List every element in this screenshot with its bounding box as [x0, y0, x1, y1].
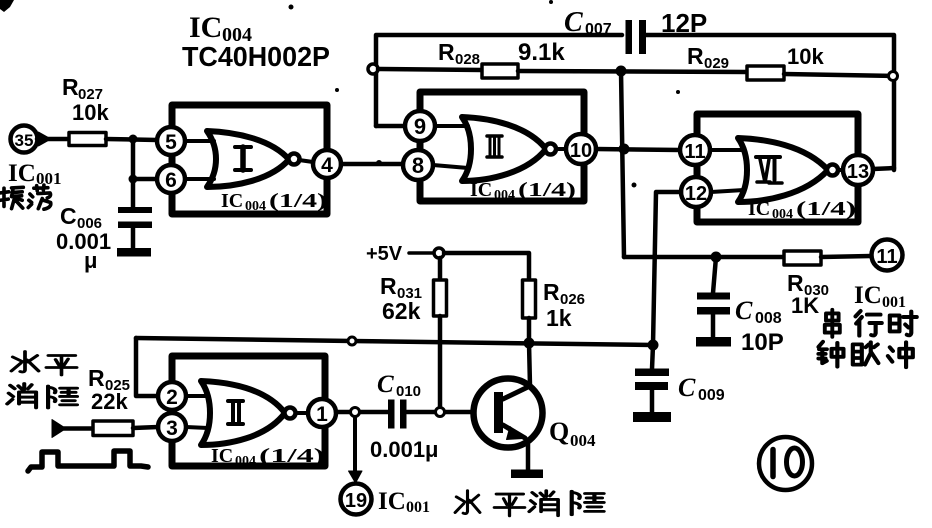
wire pin9 to gate — [435, 124, 468, 128]
svg-text:C: C — [735, 296, 753, 325]
wire bubble to pin4 — [299, 160, 313, 162]
pin 11 — [680, 135, 710, 165]
svg-text:62k: 62k — [382, 298, 421, 324]
svg-text:R: R — [438, 39, 455, 65]
svg-text:(1/4): (1/4) — [518, 179, 576, 201]
pin 9 — [405, 111, 435, 141]
wire pin12 to left vertical down — [653, 192, 681, 345]
wire pin12 to gate — [711, 190, 744, 192]
wire pin3 to gate — [186, 427, 208, 428]
gate U1-I box — [172, 105, 327, 214]
svg-text:μ: μ — [84, 248, 97, 273]
feedback wire top-left vertical — [376, 35, 622, 126]
wire corner to pin 9 — [376, 124, 405, 129]
ground bar below emitter — [511, 470, 543, 479]
capacitor C008 — [697, 257, 784, 356]
gate I part label IC004(1/4) — [221, 190, 327, 214]
NOR gate VI body — [738, 138, 838, 202]
label 消隐 — [7, 384, 77, 408]
svg-text:007: 007 — [585, 21, 612, 38]
wire C010 to base — [407, 410, 473, 415]
wire pin13 to right vertical — [873, 168, 894, 169]
terminal 11 (IC001 serial clock) — [872, 240, 903, 271]
svg-text:8: 8 — [412, 153, 424, 178]
node junction vertical/pin10 wire — [619, 144, 630, 155]
wire pin8 to gate — [433, 165, 468, 168]
svg-text:IC: IC — [378, 488, 406, 515]
node junction R028/R029/vertical — [616, 66, 627, 77]
capacitor C009 — [635, 345, 725, 413]
wire pin6 to gate — [185, 177, 214, 181]
gate II part label IC004(1/4) — [211, 445, 325, 469]
node junction pin6 — [129, 175, 138, 184]
label IC001 (oscillator) — [8, 160, 62, 188]
resistor R028 — [438, 39, 565, 78]
NOR gate III body — [462, 117, 556, 181]
wire 35 to R027 — [37, 137, 69, 142]
svg-text:1K: 1K — [791, 293, 819, 318]
node junction collector/R026 — [524, 338, 535, 349]
label 钟脉冲 — [818, 342, 912, 368]
capacitor C010 — [370, 371, 439, 462]
capacitor C006 — [56, 203, 152, 273]
svg-text:(1/4): (1/4) — [259, 445, 325, 467]
svg-text:004: 004 — [245, 199, 266, 214]
svg-text:R: R — [62, 74, 79, 100]
+5V supply — [366, 243, 444, 265]
gate VI numeral — [756, 157, 782, 183]
svg-text:9.1k: 9.1k — [518, 39, 565, 66]
svg-text:19: 19 — [345, 490, 367, 512]
gate U1-VI box — [697, 114, 858, 222]
top wire C007 to right corner — [646, 35, 894, 170]
wire junction to pin 6 — [133, 177, 157, 182]
label IC001 serial clock — [854, 282, 906, 311]
svg-text:10k: 10k — [72, 100, 109, 125]
svg-text:10P: 10P — [741, 329, 784, 356]
pin 13 (output) — [843, 155, 873, 185]
pin 10 (output) — [566, 134, 596, 164]
wire R025 to pin3 — [133, 427, 158, 428]
wire pin4 to pin8 — [341, 162, 403, 167]
svg-text:004: 004 — [772, 207, 793, 222]
svg-text:1k: 1k — [546, 305, 572, 331]
wire junction down to pin6 level and C006 — [131, 139, 136, 208]
wire bubble to pin13 — [838, 168, 843, 172]
node junction C009 top — [648, 340, 659, 351]
pin 19 drop arrow — [353, 417, 357, 471]
svg-text:R: R — [543, 279, 560, 305]
feedback vertical down to pin 2 — [136, 338, 158, 396]
wire pin5 to gate — [185, 139, 214, 143]
resistor R027 — [62, 74, 109, 146]
terminal 19 (IC001 horizontal blanking) — [341, 484, 372, 515]
pin 8 — [403, 150, 433, 180]
pin 6 — [157, 165, 185, 193]
svg-text:001: 001 — [882, 294, 906, 311]
node junction C008 top — [711, 252, 722, 263]
wire R029 to right vertical — [784, 74, 894, 76]
gate II numeral — [228, 401, 243, 424]
wire pin10 to pin11 — [596, 149, 680, 150]
wire bubble to pin1 — [296, 411, 308, 415]
resistor R026 — [523, 279, 586, 343]
svg-text:029: 029 — [704, 55, 729, 72]
svg-text:C: C — [377, 371, 394, 398]
ground bar below C009 — [633, 412, 671, 422]
svg-text:35: 35 — [15, 131, 34, 150]
svg-text:22k: 22k — [91, 389, 128, 414]
svg-text:001: 001 — [406, 499, 430, 516]
svg-text:5: 5 — [165, 131, 177, 154]
node ring right — [889, 72, 898, 81]
terminal 35 (IC001 pin 35) — [11, 126, 52, 153]
pin 2 — [158, 382, 186, 410]
svg-text:10k: 10k — [787, 44, 824, 69]
resistor R031 — [380, 258, 447, 412]
specks — [0, 0, 680, 188]
ink blob on wire — [376, 160, 382, 166]
svg-text:11: 11 — [876, 246, 897, 268]
wire pin2 to gate — [186, 394, 208, 398]
pin 5 — [157, 127, 185, 155]
gate III numeral — [487, 136, 502, 157]
svg-text:10: 10 — [570, 140, 592, 162]
transistor Q004 — [474, 379, 597, 471]
label R025 22k — [88, 365, 130, 414]
svg-text:IC: IC — [211, 445, 233, 467]
wire R028 to junction to R029 — [518, 71, 747, 72]
svg-text:3: 3 — [166, 417, 178, 440]
pin 3 — [158, 413, 186, 441]
svg-text:IC: IC — [8, 160, 36, 187]
gate VI part label IC004(1/4) — [748, 198, 856, 222]
svg-text:(1/4): (1/4) — [269, 190, 327, 212]
wire bubble to pin10 — [556, 147, 566, 151]
pin 12 — [681, 177, 711, 207]
resistor R029 — [687, 43, 824, 80]
input pulse waveform — [28, 451, 148, 471]
svg-text:004: 004 — [235, 454, 256, 469]
svg-text:6: 6 — [165, 169, 177, 192]
svg-text:0.001μ: 0.001μ — [370, 437, 439, 462]
svg-text:004: 004 — [494, 188, 515, 203]
wire pin1 to C010 — [336, 410, 388, 415]
svg-text:(1/4): (1/4) — [796, 198, 856, 220]
label 水平 — [11, 352, 76, 376]
svg-text:C: C — [564, 7, 583, 38]
svg-text:008: 008 — [755, 310, 782, 327]
wire pin11 to gate — [710, 148, 744, 152]
svg-text:R: R — [88, 365, 105, 391]
capacitor C007 — [564, 7, 707, 54]
svg-text:028: 028 — [455, 51, 480, 68]
gate III part label IC004(1/4) — [470, 179, 576, 203]
svg-text:IC: IC — [748, 198, 770, 220]
wire R030 to terminal 11 — [821, 256, 871, 257]
node small ring (left end R028) — [368, 64, 378, 74]
svg-text:11: 11 — [684, 141, 705, 163]
svg-text:12: 12 — [685, 183, 707, 205]
wire serial row corner to R030 — [624, 255, 784, 260]
node ring on feedback wire — [348, 337, 356, 345]
svg-text:IC: IC — [470, 179, 492, 201]
pin 4 (output) — [313, 150, 341, 178]
input arrow — [52, 420, 66, 438]
svg-text:R: R — [380, 273, 397, 299]
figure number 10 — [759, 437, 812, 490]
svg-text:4: 4 — [321, 154, 333, 177]
wire R027 to pin5 — [106, 139, 157, 140]
NOR gate II body — [201, 381, 296, 445]
node ring R031 bottom — [436, 408, 445, 417]
svg-text:TC40H002P: TC40H002P — [182, 41, 330, 72]
label IC004 TC40H002P (chip title) — [182, 11, 330, 72]
svg-text:009: 009 — [698, 387, 725, 404]
svg-text:2: 2 — [166, 386, 178, 409]
resistor R030 — [784, 251, 829, 318]
label 串行时 — [825, 310, 917, 337]
wire collector up to junction — [529, 343, 530, 386]
ground bar below C008 — [696, 337, 731, 347]
svg-text:Q: Q — [549, 417, 569, 446]
svg-text:IC: IC — [221, 190, 243, 212]
wire +5V to R026 top — [444, 253, 529, 280]
resistor R025 — [93, 421, 133, 436]
svg-text:010: 010 — [396, 383, 421, 400]
NOR gate I body — [207, 131, 300, 187]
gate U1-II box (bottom) — [172, 356, 325, 466]
label IC001 — [378, 488, 430, 516]
gate I numeral — [235, 147, 251, 170]
svg-text:R: R — [687, 43, 704, 69]
svg-text:1: 1 — [316, 403, 328, 426]
label 振荡 — [0, 185, 51, 209]
svg-text:IC: IC — [189, 11, 222, 44]
pin 1 (output) — [308, 399, 336, 427]
svg-text:+5V: +5V — [366, 243, 403, 265]
vertical wire R028 junction down to serial row — [621, 71, 624, 257]
long feedback wire (pin2 to collector node to C009) — [136, 338, 653, 345]
svg-text:C: C — [678, 373, 696, 402]
svg-text:IC: IC — [854, 282, 882, 309]
svg-text:13: 13 — [847, 161, 869, 183]
ground bar below C006 — [117, 248, 151, 257]
svg-text:C: C — [60, 203, 77, 229]
svg-text:001: 001 — [36, 169, 62, 188]
node ring pin19 branch — [351, 408, 360, 417]
wire arrow to R025 — [64, 426, 93, 431]
svg-text:004: 004 — [570, 431, 596, 450]
svg-text:9: 9 — [414, 114, 426, 139]
wire R028 row — [378, 69, 482, 70]
gate U1-III box — [420, 92, 584, 201]
node junction at R027/pin5 — [129, 135, 138, 144]
label 水 平消隐 (bottom) — [455, 491, 604, 516]
